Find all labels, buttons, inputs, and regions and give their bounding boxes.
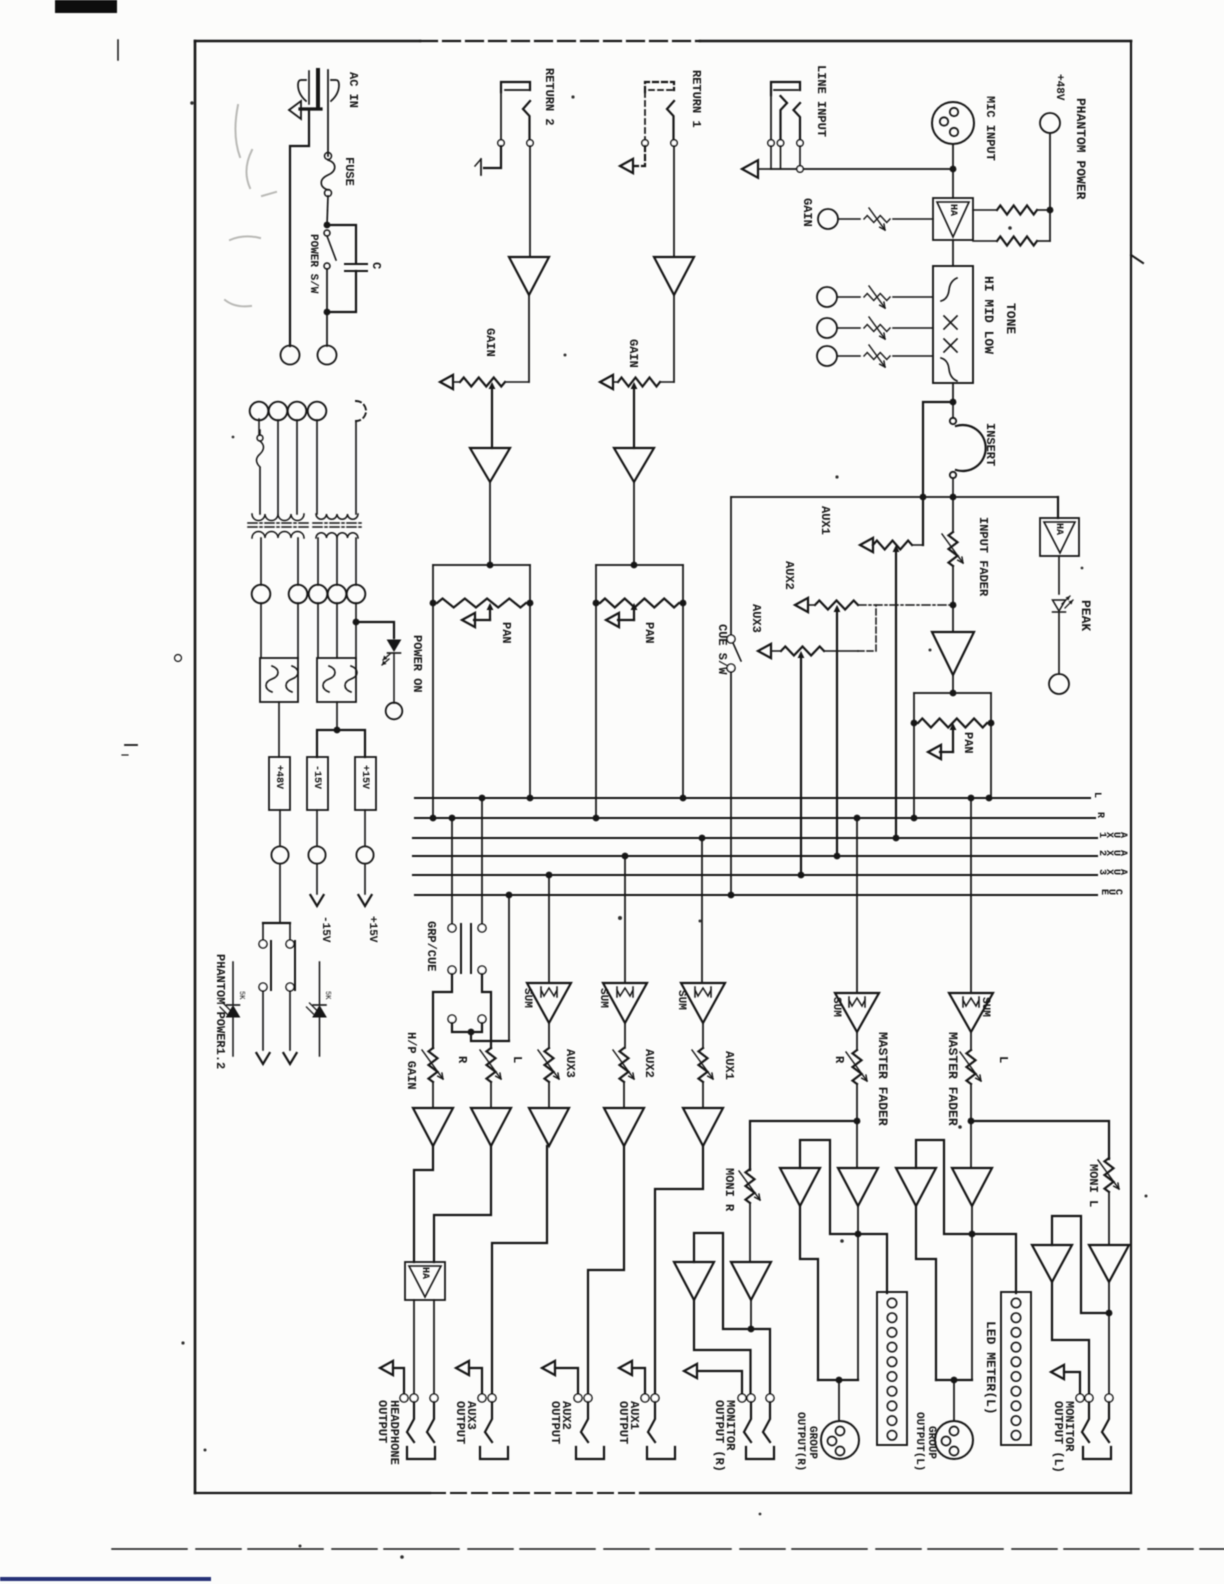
svg-text:OUTPUT: OUTPUT: [453, 1401, 467, 1444]
svg-text:-15V: -15V: [311, 765, 322, 789]
svg-text:PAN: PAN: [499, 622, 513, 644]
svg-text:R: R: [455, 1056, 469, 1064]
svg-text:GAIN: GAIN: [626, 339, 640, 368]
svg-text:TONE: TONE: [1003, 303, 1018, 334]
svg-text:5K: 5K: [237, 991, 245, 1000]
svg-text:MONI R: MONI R: [722, 1168, 736, 1212]
svg-text:CUE S/W: CUE S/W: [715, 624, 729, 675]
svg-text:POWER ON: POWER ON: [410, 635, 424, 693]
svg-text:+15V: +15V: [366, 916, 378, 943]
svg-text:A: A: [1117, 869, 1128, 875]
svg-text:AUX1: AUX1: [818, 506, 832, 535]
svg-text:-15V: -15V: [319, 916, 331, 943]
svg-text:PEAK: PEAK: [1078, 600, 1093, 631]
svg-text:POWER S/W: POWER S/W: [307, 234, 319, 294]
svg-text:R: R: [1094, 812, 1105, 818]
svg-text:OUTPUT (R): OUTPUT (R): [712, 1400, 726, 1472]
svg-text:LED METER(L): LED METER(L): [983, 1321, 998, 1415]
svg-text:AUX1: AUX1: [722, 1051, 736, 1080]
svg-text:OUTPUT: OUTPUT: [548, 1401, 562, 1444]
svg-text:SUM: SUM: [675, 990, 687, 1010]
svg-text:L: L: [996, 1056, 1010, 1063]
svg-text:L: L: [1091, 792, 1102, 798]
svg-text:GROUP: GROUP: [806, 1426, 818, 1459]
svg-text:SUM: SUM: [979, 997, 991, 1017]
svg-text:HA: HA: [419, 1267, 430, 1279]
svg-text:AUX2: AUX2: [642, 1049, 656, 1078]
svg-text:SUM: SUM: [830, 997, 842, 1017]
svg-text:GROUP: GROUP: [925, 1426, 937, 1459]
svg-text:INPUT FADER: INPUT FADER: [976, 517, 990, 597]
svg-text:+15V: +15V: [359, 765, 370, 789]
svg-text:OUTPUT: OUTPUT: [616, 1401, 630, 1444]
svg-text:+48V: +48V: [273, 765, 284, 789]
svg-text:5K: 5K: [323, 991, 331, 1000]
svg-text:H/P GAIN: H/P GAIN: [404, 1032, 418, 1090]
svg-text:MASTER FADER: MASTER FADER: [875, 1032, 890, 1126]
svg-text:LINE INPUT: LINE INPUT: [814, 65, 828, 137]
svg-text:MIC INPUT: MIC INPUT: [983, 96, 997, 161]
svg-text:SUM: SUM: [597, 988, 609, 1008]
svg-text:GAIN: GAIN: [483, 328, 497, 357]
svg-text:AUX3: AUX3: [749, 604, 763, 633]
svg-text:AUX2: AUX2: [782, 561, 796, 590]
svg-text:MASTER FADER: MASTER FADER: [945, 1032, 960, 1126]
svg-text:SUM: SUM: [521, 988, 533, 1008]
svg-text:RETURN 1: RETURN 1: [689, 70, 703, 128]
svg-text:AC IN: AC IN: [346, 72, 360, 108]
svg-text:PHANTOM POWER: PHANTOM POWER: [1073, 98, 1088, 200]
svg-text:GRP/CUE: GRP/CUE: [424, 921, 438, 971]
svg-text:INSERT: INSERT: [983, 423, 997, 466]
svg-text:A: A: [1117, 850, 1128, 856]
svg-text:C: C: [369, 262, 383, 269]
svg-text:MONI L: MONI L: [1086, 1164, 1100, 1207]
svg-text:A: A: [1117, 832, 1128, 838]
svg-text:R: R: [832, 1056, 846, 1064]
svg-text:PHANTOM POWER1.2: PHANTOM POWER1.2: [213, 954, 227, 1069]
svg-text:OUTPUT (L): OUTPUT (L): [1051, 1401, 1065, 1473]
svg-text:GAIN: GAIN: [800, 198, 814, 227]
svg-text:OUTPUT(R): OUTPUT(R): [794, 1412, 806, 1471]
svg-text:OUTPUT(L): OUTPUT(L): [913, 1412, 925, 1471]
svg-text:L: L: [510, 1056, 524, 1063]
svg-text:C: C: [1112, 889, 1123, 895]
svg-text:PAN: PAN: [642, 622, 656, 644]
svg-text:FUSE: FUSE: [342, 157, 356, 186]
svg-text:+48V: +48V: [1053, 74, 1065, 101]
svg-text:RETURN 2: RETURN 2: [542, 68, 556, 126]
svg-text:PAN: PAN: [961, 732, 975, 754]
svg-text:HA: HA: [947, 204, 958, 216]
svg-text:HA: HA: [1053, 523, 1064, 535]
svg-text:HI MID LOW: HI MID LOW: [981, 276, 996, 354]
svg-text:AUX3: AUX3: [563, 1049, 577, 1078]
svg-text:OUTPUT: OUTPUT: [375, 1400, 389, 1443]
